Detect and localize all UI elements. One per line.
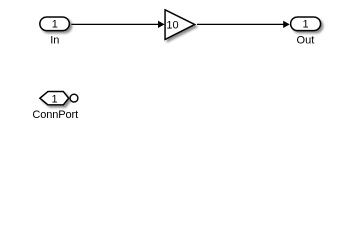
connection port ConnPort xyxy=(40,92,78,106)
inport In xyxy=(40,17,69,31)
svg-text:1: 1 xyxy=(302,19,308,31)
svg-text:10: 10 xyxy=(166,19,178,31)
svg-text:1: 1 xyxy=(52,19,58,31)
svg-text:1: 1 xyxy=(52,94,58,106)
svg-text:Out: Out xyxy=(297,35,315,47)
outport Out xyxy=(291,17,321,31)
wire In to Gain xyxy=(71,21,164,28)
wire Gain to Out xyxy=(197,21,290,28)
svg-text:In: In xyxy=(50,35,59,47)
svg-text:ConnPort: ConnPort xyxy=(32,109,78,121)
gain U1 xyxy=(165,10,195,40)
